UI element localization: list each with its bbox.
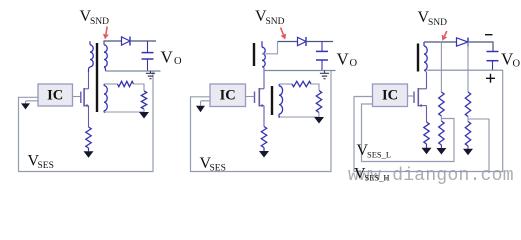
- ground output 1: [146, 71, 155, 79]
- svg-text:IC: IC: [47, 87, 63, 103]
- wire feedback loop V_SES_H circuit 3: [354, 70, 503, 171]
- ground divider 1 arrow: [436, 148, 446, 155]
- label V_SND 3: [418, 9, 448, 28]
- ground IC1 arrow: [21, 101, 38, 110]
- ground R7 arrow: [422, 148, 432, 155]
- capacitor C2 output: [316, 42, 328, 71]
- label V_SND 2: [255, 8, 285, 27]
- wire D1 cathode to output: [131, 40, 156, 42]
- label V_O 3: [501, 50, 521, 70]
- IC U1: [38, 84, 73, 106]
- resistor R8 upper divider 1: [439, 92, 444, 116]
- svg-text:O: O: [350, 58, 358, 69]
- label V_SES 1: [28, 153, 54, 172]
- wire Q3 source to R7: [426, 106, 428, 122]
- transformer T1 primary winding: [89, 41, 94, 72]
- wire aux top to R2: [105, 83, 118, 85]
- diode D3: [457, 38, 469, 47]
- diode D1: [122, 37, 131, 46]
- wire R1 to ground: [88, 148, 90, 151]
- label V_SES 2: [200, 155, 226, 174]
- capacitor C1 output: [142, 41, 154, 71]
- wire Q2 source to R4: [263, 106, 265, 127]
- label V_SES_H: [354, 166, 390, 183]
- resistor R9 lower divider 1: [439, 121, 444, 145]
- resistor R7 current sense: [424, 122, 429, 144]
- wire Q2 drain to L1: [263, 67, 265, 89]
- wire output bottom 2: [264, 70, 336, 72]
- svg-text:SES_H: SES_H: [365, 172, 390, 182]
- label plus output 3: [486, 74, 495, 83]
- inductor L1 core: [253, 43, 255, 66]
- ground aux network arrow: [139, 112, 149, 119]
- transformer T1 core: [96, 43, 98, 112]
- diode D2: [298, 37, 307, 46]
- wire R4 to ground: [263, 148, 265, 152]
- IC U2: [210, 84, 246, 107]
- label V_SES_L: [357, 142, 392, 160]
- resistor R1 current sense: [86, 127, 91, 148]
- resistor R4 current sense: [261, 127, 266, 148]
- node V_SND wire secondary top to diode: [104, 41, 122, 45]
- IC U3: [373, 84, 408, 107]
- svg-text:IC: IC: [220, 87, 236, 103]
- resistor R10 upper divider 2: [465, 92, 470, 117]
- wire D3 cathode to output corner: [469, 42, 493, 52]
- wire feedback loop V_SES circuit 2: [191, 71, 332, 172]
- wire Q1 source to R1: [88, 106, 90, 127]
- label V_O 2: [337, 50, 358, 70]
- inductor L3 core: [417, 44, 419, 72]
- sense winding L2 core: [271, 86, 273, 115]
- capacitor C3 output: [487, 52, 499, 71]
- red arrow V_SND pointer 3: [442, 31, 448, 41]
- svg-text:SES_L: SES_L: [367, 150, 391, 160]
- wire Q3 drain to L3: [425, 71, 427, 89]
- node V_SND wire top rail 3: [424, 41, 457, 43]
- wire tap V_SES_H: [468, 117, 489, 172]
- ground IC2 arrow: [196, 101, 210, 113]
- transformer T1 secondary winding: [104, 45, 107, 71]
- svg-text:SES: SES: [38, 161, 54, 171]
- transistor Q1 MOSFET: [81, 88, 89, 107]
- resistor R3 vertical: [141, 91, 146, 109]
- wire divider chain 2 from output node: [467, 42, 469, 92]
- label V_SND 1: [80, 8, 110, 27]
- ground R4 arrow: [259, 151, 269, 158]
- red arrow V_SND pointer 2: [281, 28, 287, 40]
- wire R9 to ground: [440, 145, 442, 148]
- resistor R11 lower divider 2: [465, 122, 470, 147]
- transistor Q3 MOSFET: [414, 88, 427, 107]
- ground divider 2 arrow: [463, 149, 473, 156]
- node V_SND wire to diode 2: [278, 41, 298, 43]
- ground output 2: [320, 71, 329, 79]
- svg-text:V: V: [161, 48, 174, 67]
- ground sense network arrow 2: [314, 117, 324, 124]
- red arrow V_SND pointer 1: [103, 27, 109, 40]
- wire output bottom 1: [106, 70, 161, 72]
- resistor R6 vertical: [316, 91, 321, 113]
- wire Q1 drain to primary: [88, 72, 90, 89]
- wire IC3 gate pin: [408, 95, 414, 97]
- transformer T1 aux winding: [104, 84, 107, 113]
- svg-text:SND: SND: [90, 17, 109, 27]
- label IC U1: [47, 87, 63, 103]
- svg-text:SND: SND: [266, 17, 285, 27]
- wire feedback loop V_SES_L circuit 3: [362, 104, 455, 162]
- wire R11 to ground: [467, 146, 469, 149]
- sense winding L2: [279, 84, 283, 117]
- resistor R2 horizontal: [118, 81, 134, 86]
- wire IC1 gate pin: [73, 96, 81, 98]
- label IC U2: [220, 87, 236, 103]
- wire output bottom 3: [426, 69, 503, 71]
- wire L1 tap to top rail: [262, 42, 278, 54]
- resistor R5 horizontal: [292, 81, 311, 86]
- ground R1 arrow: [84, 151, 94, 158]
- label minus output 3: [485, 34, 493, 36]
- wire R2 to R3: [134, 84, 145, 91]
- svg-text:V: V: [337, 50, 350, 69]
- wire IC2 gate pin: [246, 96, 254, 98]
- transistor Q2 MOSFET: [255, 88, 265, 107]
- svg-text:O: O: [174, 56, 182, 67]
- wire L2 top to R5: [280, 83, 293, 85]
- svg-text:O: O: [513, 59, 521, 70]
- label IC U3: [382, 87, 398, 103]
- wire tap V_SES_L: [440, 116, 442, 121]
- wire R6 bottom to L2 bottom: [280, 113, 319, 118]
- wire D2 cathode to output: [307, 41, 333, 43]
- label V_O 1: [161, 48, 183, 68]
- svg-text:SES: SES: [210, 164, 226, 174]
- svg-text:IC: IC: [382, 87, 398, 103]
- wire R7 to ground: [426, 144, 428, 148]
- wire feedback loop V_SES circuit 1: [19, 71, 154, 172]
- svg-text:SND: SND: [428, 18, 447, 28]
- wire divider chain 1 from V_SND node: [440, 42, 442, 92]
- inductor L1 winding: [262, 41, 265, 67]
- wire R5 to R6: [311, 84, 319, 91]
- wire R3 bottom to aux bottom: [105, 109, 144, 112]
- watermark diangon.com: [348, 166, 514, 186]
- inductor L3 winding: [424, 42, 427, 70]
